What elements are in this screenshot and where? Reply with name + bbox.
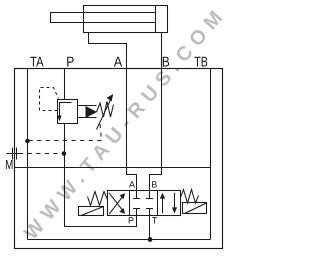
- svg-text:TA: TA: [30, 55, 44, 71]
- P port line: [64, 69, 66, 100]
- port P stub (blocked): [133, 209, 140, 216]
- port B stub (blocked): [146, 191, 153, 199]
- svg-text:A: A: [114, 55, 123, 71]
- right solenoid diagonal: [185, 203, 207, 214]
- relief valve body: [58, 100, 78, 124]
- right return spring: [181, 190, 199, 204]
- tank line to TB: [15, 167, 211, 169]
- spring drain dashed line: [28, 124, 102, 141]
- TA channel: [27, 69, 29, 240]
- relief valve spring: [97, 102, 114, 118]
- relief internal arrowhead: [57, 116, 61, 122]
- cylinder rod: [51, 13, 156, 23]
- svg-text:B: B: [162, 55, 170, 71]
- crossed arrowhead upper: [119, 193, 125, 199]
- cylinder barrel: [84, 6, 168, 33]
- left return spring: [88, 192, 108, 206]
- down arrowhead: [172, 207, 177, 213]
- crossed arrowhead lower: [119, 208, 125, 214]
- pilot line dashed box: [40, 88, 59, 111]
- port A stub (blocked): [133, 191, 140, 199]
- svg-text:WWW.TAU-RUS.COM: WWW.TAU-RUS.COM: [20, 2, 231, 244]
- svg-text:A: A: [129, 180, 135, 190]
- M gauge dashed line: [19, 153, 64, 155]
- relief valve adjustment arrow: [97, 99, 111, 129]
- watermark: [20, 2, 231, 244]
- left solenoid diagonal: [81, 207, 104, 216]
- relief valve internal arrow: [60, 103, 72, 117]
- svg-text:TB: TB: [194, 55, 208, 71]
- svg-text:P: P: [66, 55, 74, 71]
- M gauge port symbol: [7, 148, 20, 160]
- bottom tank gallery: [28, 239, 211, 241]
- right position parallel arrows: [163, 193, 175, 213]
- svg-text:T: T: [152, 216, 158, 226]
- manifold block outline: [15, 69, 223, 249]
- P line to directional valve: [65, 124, 137, 227]
- left solenoid box: [79, 207, 104, 216]
- left position crossed arrows: [109, 193, 124, 214]
- directional valve position dividers: [130, 191, 158, 216]
- svg-text:B: B: [151, 180, 157, 190]
- directional valve body: [108, 191, 181, 216]
- up arrowhead: [160, 193, 165, 199]
- cylinder piston: [155, 6, 157, 33]
- wire T stub to gallery: [149, 216, 151, 240]
- right solenoid box: [183, 203, 207, 214]
- relief pilot black triangle: [86, 106, 98, 118]
- junction dot M line: [62, 151, 67, 156]
- relief valve pilot channel: [78, 106, 97, 118]
- TB channel: [210, 69, 212, 240]
- svg-text:M: M: [5, 157, 13, 172]
- wire A from cylinder: [89, 33, 137, 191]
- junction dot T gallery: [148, 237, 153, 242]
- wire B from cylinder: [150, 33, 162, 191]
- svg-text:P: P: [128, 216, 134, 226]
- port T stub (blocked): [146, 209, 153, 216]
- junction dot TA drain: [25, 139, 30, 144]
- relief adjustment arrowhead: [107, 94, 114, 102]
